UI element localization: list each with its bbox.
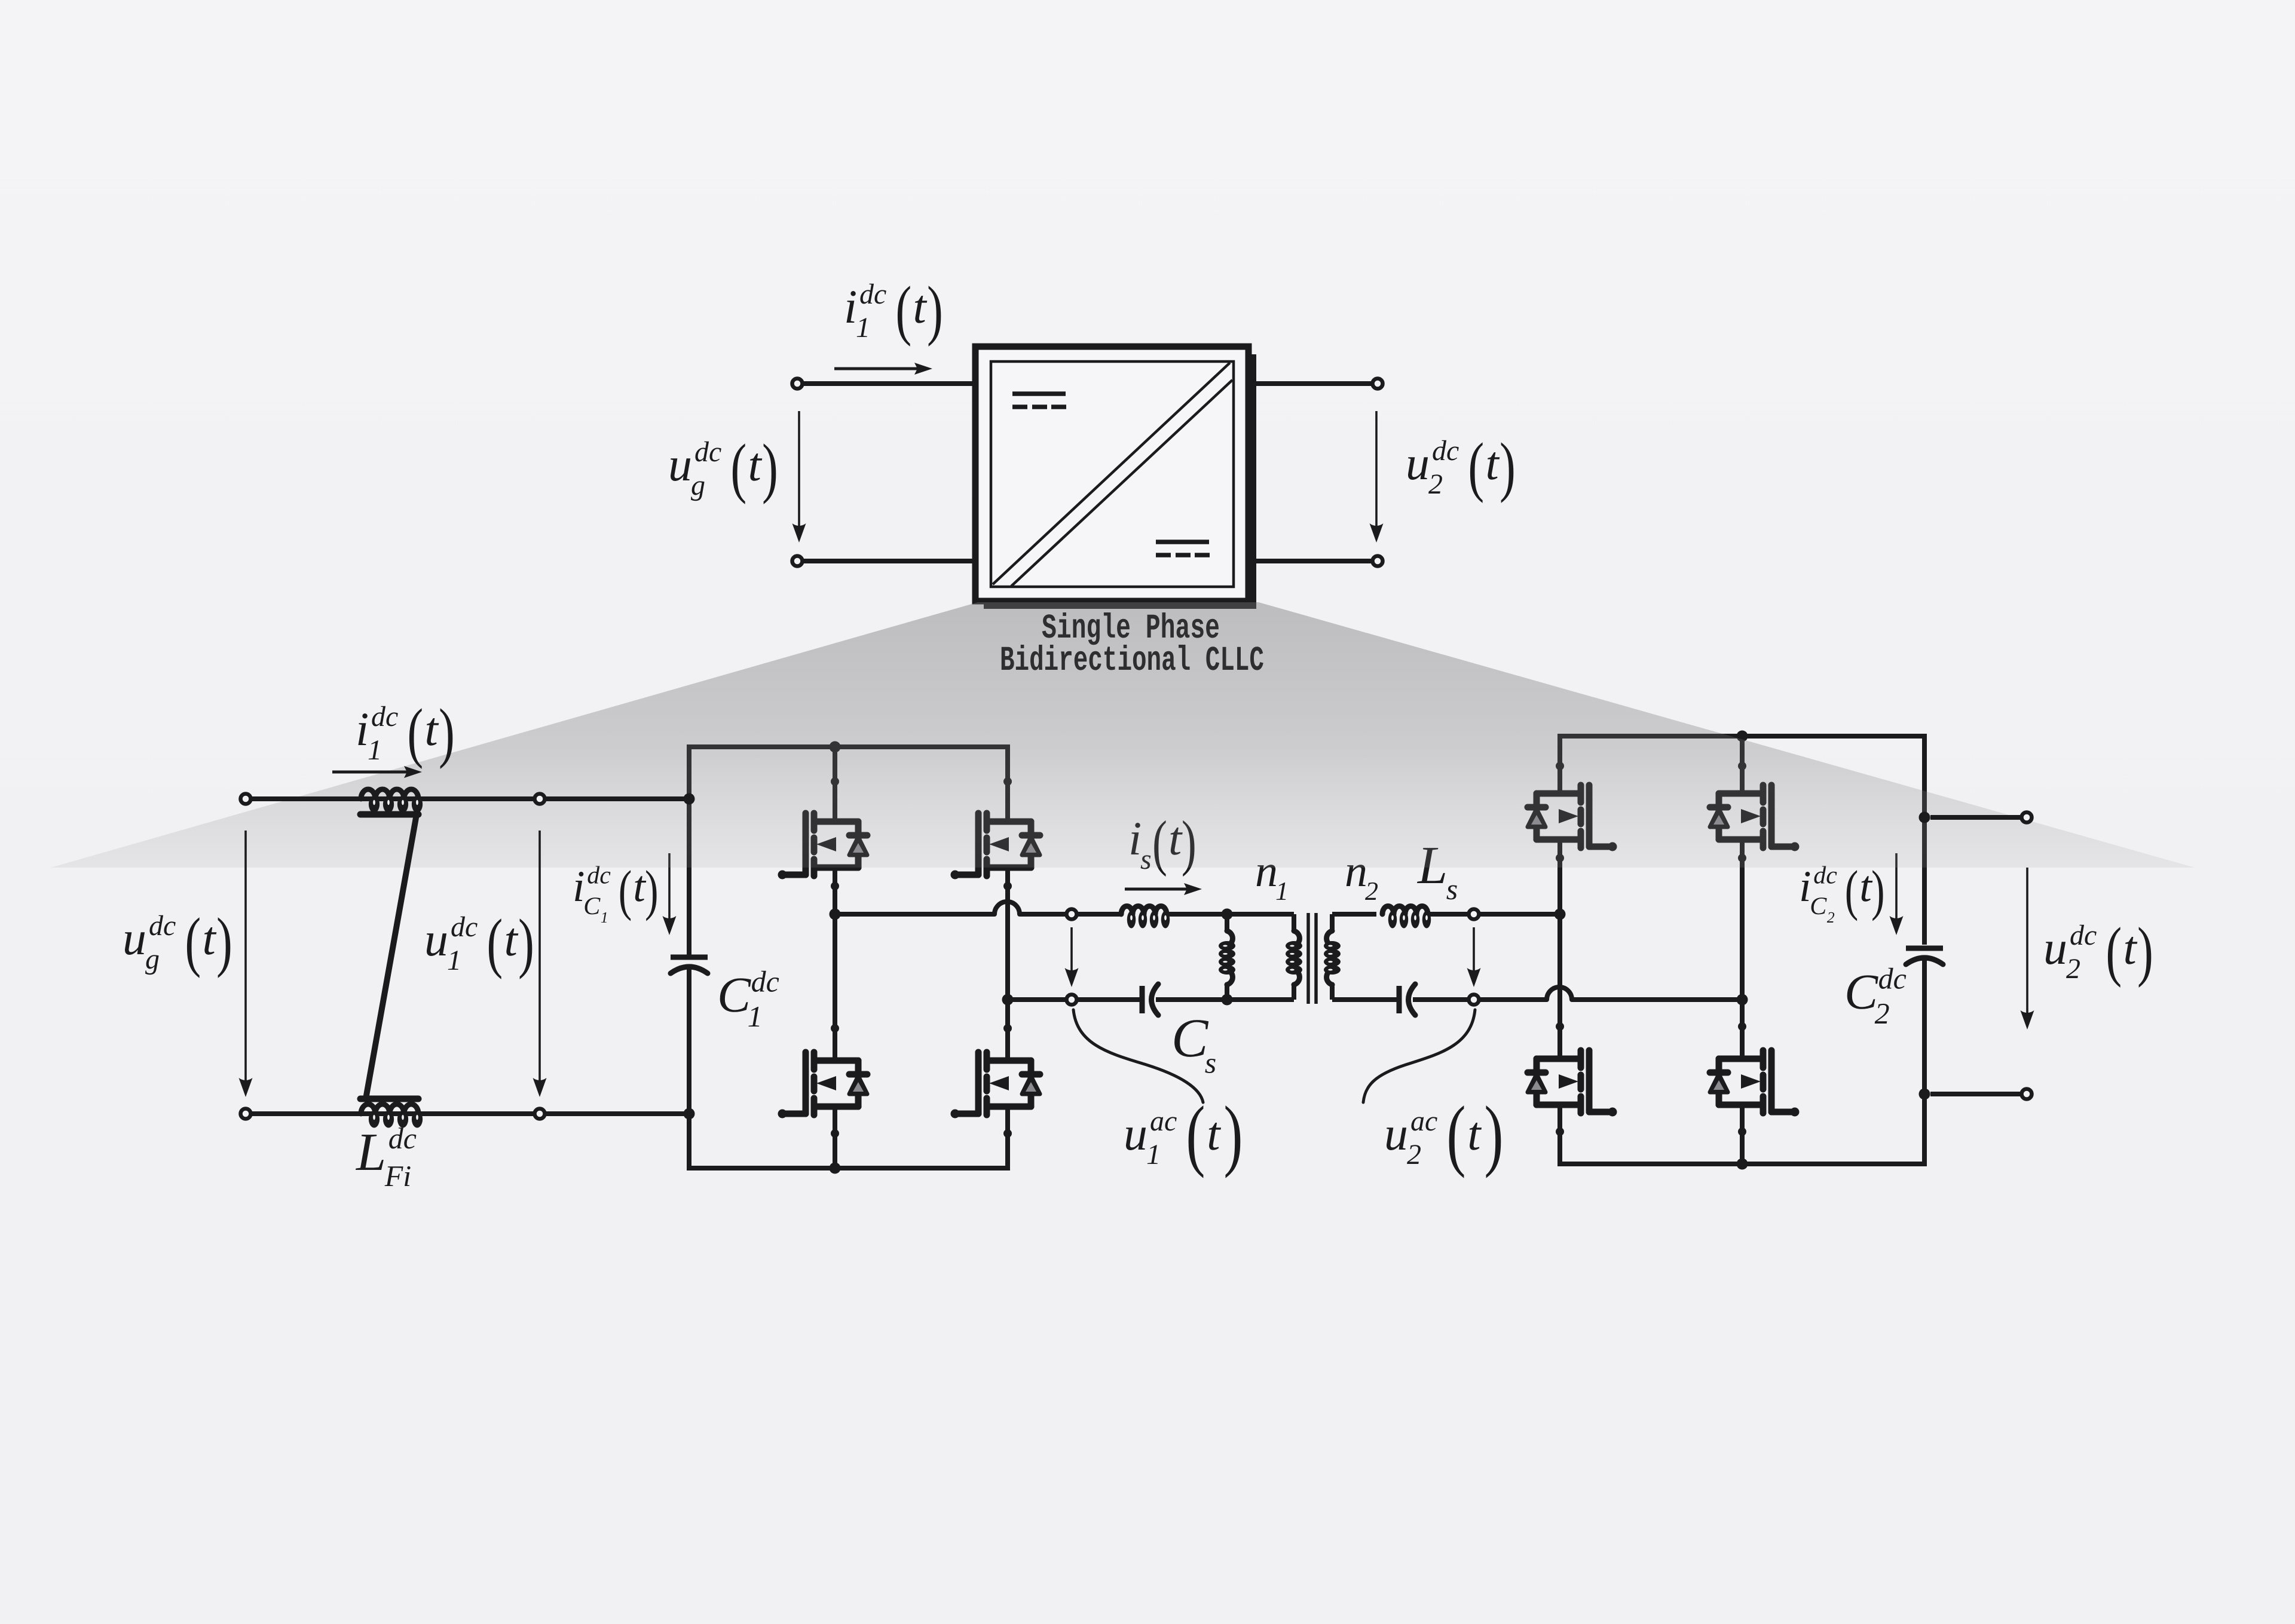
svg-text:C: C bbox=[1171, 1007, 1209, 1068]
svg-text:t: t bbox=[748, 439, 763, 491]
svg-text:s: s bbox=[1446, 872, 1458, 906]
svg-text:1: 1 bbox=[447, 945, 461, 976]
svg-text:(: ( bbox=[730, 431, 746, 505]
svg-text:t: t bbox=[1207, 1108, 1221, 1160]
svg-text:u: u bbox=[1124, 1108, 1147, 1160]
svg-text:C: C bbox=[583, 893, 601, 920]
svg-text:t: t bbox=[1467, 1108, 1482, 1160]
svg-text:dc: dc bbox=[371, 701, 398, 733]
svg-text:i: i bbox=[844, 281, 857, 333]
svg-text:): ) bbox=[2137, 914, 2153, 988]
svg-text:dc: dc bbox=[1432, 435, 1459, 467]
svg-text:(: ( bbox=[185, 905, 201, 979]
svg-text:(: ( bbox=[1845, 859, 1859, 921]
svg-text:g: g bbox=[145, 943, 160, 975]
svg-text:1: 1 bbox=[601, 909, 608, 926]
svg-text:dc: dc bbox=[751, 964, 779, 998]
svg-text:1: 1 bbox=[368, 734, 382, 766]
svg-text:2: 2 bbox=[1827, 909, 1835, 926]
svg-text:2: 2 bbox=[1365, 877, 1378, 906]
svg-text:(: ( bbox=[2106, 914, 2122, 988]
svg-text:C: C bbox=[1810, 893, 1827, 920]
svg-text:t: t bbox=[2123, 922, 2138, 975]
svg-text:t: t bbox=[1486, 437, 1500, 490]
svg-text:(: ( bbox=[407, 695, 423, 770]
svg-text:dc: dc bbox=[859, 278, 886, 310]
svg-text:C: C bbox=[1844, 964, 1878, 1020]
svg-text:i: i bbox=[356, 703, 369, 756]
svg-text:u: u bbox=[123, 912, 146, 965]
svg-text:1: 1 bbox=[1275, 877, 1289, 906]
svg-text:u: u bbox=[424, 914, 448, 966]
svg-text:(: ( bbox=[619, 859, 632, 921]
svg-text:): ) bbox=[645, 859, 659, 921]
svg-text:u: u bbox=[2043, 922, 2067, 975]
svg-text:ac: ac bbox=[1410, 1105, 1437, 1137]
svg-text:L: L bbox=[355, 1123, 386, 1182]
svg-text:ac: ac bbox=[1150, 1105, 1177, 1137]
svg-text:g: g bbox=[691, 470, 705, 501]
svg-text:C: C bbox=[717, 967, 751, 1023]
svg-text:dc: dc bbox=[694, 436, 721, 468]
svg-text:2: 2 bbox=[1875, 997, 1890, 1030]
svg-text:2: 2 bbox=[1407, 1139, 1421, 1170]
svg-text:t: t bbox=[504, 914, 519, 966]
svg-text:2: 2 bbox=[1428, 468, 1443, 500]
svg-text:Fi: Fi bbox=[384, 1159, 411, 1193]
svg-text:t: t bbox=[425, 703, 439, 756]
svg-text:): ) bbox=[927, 273, 943, 347]
svg-text:(: ( bbox=[895, 273, 911, 347]
svg-text:): ) bbox=[439, 695, 455, 770]
svg-text:): ) bbox=[1500, 430, 1516, 504]
svg-text:s: s bbox=[1205, 1046, 1216, 1080]
svg-text:(: ( bbox=[1446, 1090, 1465, 1178]
svg-text:dc: dc bbox=[149, 910, 176, 942]
svg-text:dc: dc bbox=[451, 911, 478, 943]
svg-text:): ) bbox=[216, 905, 232, 979]
svg-text:u: u bbox=[1384, 1108, 1408, 1160]
svg-text:2: 2 bbox=[2066, 953, 2080, 985]
svg-text:u: u bbox=[1406, 437, 1430, 490]
svg-text:): ) bbox=[1223, 1090, 1243, 1178]
svg-text:dc: dc bbox=[2070, 920, 2097, 951]
svg-text:): ) bbox=[1484, 1090, 1503, 1178]
svg-text:t: t bbox=[913, 281, 928, 333]
svg-text:): ) bbox=[1871, 859, 1885, 921]
svg-text:1: 1 bbox=[1146, 1139, 1161, 1170]
svg-text:(: ( bbox=[486, 906, 503, 980]
svg-text:Bidirectional CLLC: Bidirectional CLLC bbox=[1000, 642, 1264, 681]
svg-text:dc: dc bbox=[1878, 961, 1907, 995]
svg-text:(: ( bbox=[1468, 430, 1484, 504]
svg-text:1: 1 bbox=[748, 1000, 763, 1033]
svg-text:t: t bbox=[203, 912, 217, 965]
svg-text:u: u bbox=[668, 439, 692, 491]
svg-text:): ) bbox=[518, 906, 534, 980]
svg-text:dc: dc bbox=[388, 1122, 417, 1155]
svg-text:1: 1 bbox=[856, 312, 870, 344]
svg-text:): ) bbox=[762, 431, 778, 505]
